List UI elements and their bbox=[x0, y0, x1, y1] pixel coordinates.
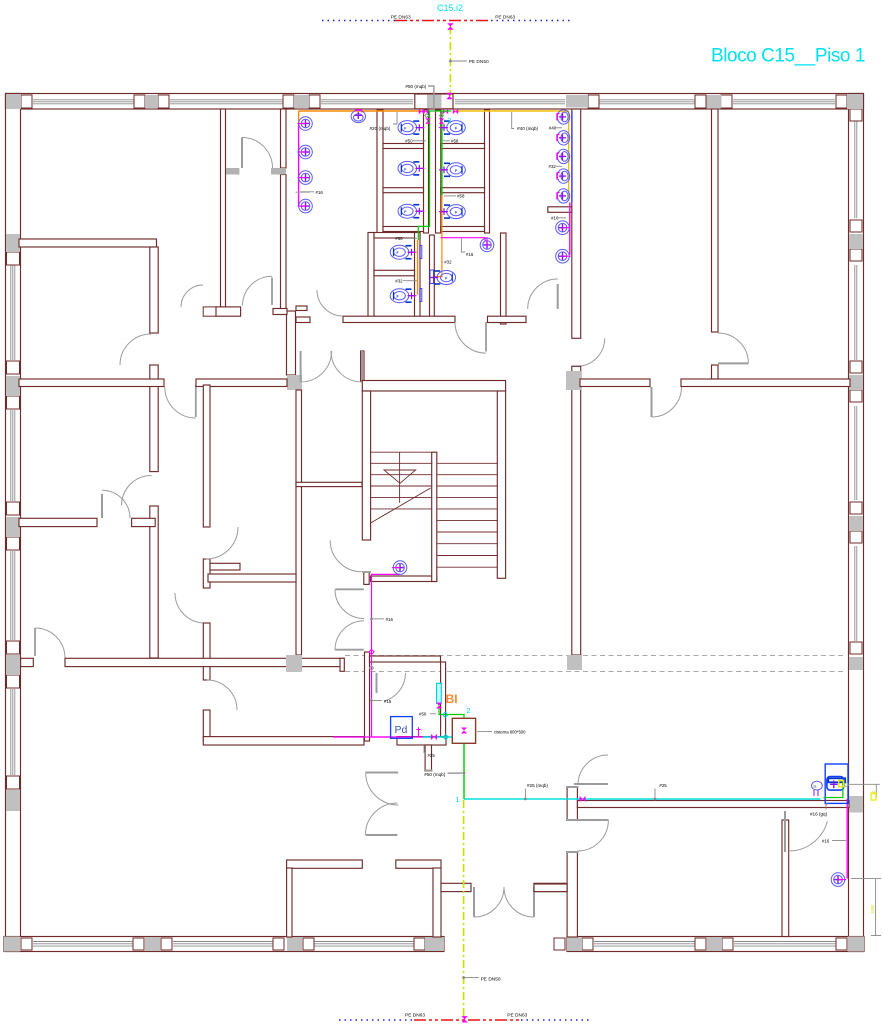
label PE DN63 bottom left bbox=[405, 1013, 425, 1019]
yellow pipe top horizontal bbox=[453, 110, 569, 112]
door arc pier bbox=[577, 820, 608, 851]
window glazing bottom wall x173 bbox=[173, 942, 273, 947]
pillar top wall x294 bbox=[294, 95, 309, 108]
pillar right wall y375 bbox=[849, 375, 863, 390]
valve main pd bbox=[431, 734, 437, 740]
svg-text:#40: #40 bbox=[549, 126, 557, 131]
door leaf + arc between A and B bbox=[242, 138, 273, 169]
wash basin right column 2 bbox=[556, 249, 571, 263]
gray node equipment bbox=[845, 783, 849, 787]
small blue fitting mid room bbox=[430, 270, 434, 284]
wall y801 horizontal bbox=[577, 801, 849, 808]
wc cell L2 bbox=[398, 161, 424, 175]
vestibule door arc 1 bbox=[366, 773, 399, 806]
svg-text:#50: #50 bbox=[419, 712, 427, 717]
window glazing bottom wall x33 bbox=[33, 942, 133, 947]
door arc x203 y680 bbox=[207, 680, 237, 710]
staircase left wall bbox=[362, 391, 370, 540]
svg-text:PE DN63: PE DN63 bbox=[391, 15, 411, 21]
ta arrows bbox=[814, 790, 818, 796]
label #50 row1 bbox=[405, 138, 426, 143]
pillar bottom-left corner bbox=[4, 937, 20, 952]
corridor wall y379 seg a bbox=[19, 379, 164, 387]
magenta pipe bottom right bbox=[846, 799, 848, 879]
svg-text:#50: #50 bbox=[405, 138, 413, 143]
toilet separator y143 left bbox=[383, 144, 424, 149]
green pipe top junction bbox=[428, 110, 451, 112]
yellow fitting equipment bbox=[839, 780, 844, 786]
label cyan 1 bbox=[456, 797, 460, 804]
wall x360 above stairs bbox=[361, 351, 364, 381]
wall y884 horizontal seg bbox=[534, 884, 567, 892]
wc cell R1 bbox=[439, 121, 465, 135]
toilet block bottom band east bbox=[488, 316, 527, 322]
door arc toilet SW bbox=[181, 285, 203, 307]
orange pipe top horizontal bbox=[299, 110, 424, 112]
svg-text:90: 90 bbox=[871, 790, 876, 795]
label #16 right col bbox=[551, 216, 566, 221]
wall y736 horizontal left bbox=[203, 737, 364, 745]
window glazing bottom wall x594 bbox=[594, 942, 695, 947]
interior wall C x571.8 lower bbox=[572, 366, 581, 655]
corridor dashed line lower bbox=[345, 671, 845, 673]
room2 top wall left bbox=[441, 883, 471, 891]
window jambs bottom wall bbox=[21, 938, 847, 950]
yellow-green supply line top bbox=[449, 26, 451, 96]
label #50 mqb top bbox=[405, 84, 434, 112]
door leaf+arc toilet exit2 bbox=[243, 276, 273, 306]
label #32 mid room bbox=[442, 260, 453, 265]
vestibule door leaf 2 bbox=[366, 834, 398, 836]
node pe dn50 bbox=[449, 60, 467, 63]
window glazing right wall y265 bbox=[855, 265, 857, 360]
corridor dashed line upper bbox=[345, 655, 845, 657]
room1 left wall bbox=[287, 868, 292, 937]
wall x782 vertical bbox=[782, 820, 789, 937]
diamond node green 50 bbox=[443, 712, 448, 717]
ta circle bbox=[812, 781, 823, 790]
door jamb toilet SW bbox=[203, 307, 216, 316]
magenta pipe mid-room bbox=[441, 238, 485, 241]
label cyan 2 toilets bbox=[448, 118, 452, 125]
green pipe equipment L bbox=[823, 780, 843, 797]
label PE DN50 top bbox=[469, 59, 489, 65]
room2 double door arcs bbox=[474, 887, 534, 917]
outer bottom wall band left part bbox=[4, 937, 444, 952]
label Pd bbox=[395, 724, 408, 736]
dim line equipment bbox=[849, 784, 880, 798]
door arc corridor left bbox=[35, 628, 65, 658]
svg-text:Pd: Pd bbox=[395, 724, 408, 736]
interior wall x150 upper bbox=[150, 247, 158, 333]
door arc y784 bbox=[578, 755, 608, 785]
interior wall x203 low bbox=[203, 710, 210, 741]
node 50 mqb bbox=[448, 772, 466, 775]
pillar left wall y517 bbox=[6, 517, 20, 537]
room1 right wall bbox=[433, 868, 441, 937]
staircase top wall bbox=[362, 381, 505, 392]
toilet wall x377 vertical bbox=[377, 110, 383, 233]
interior wall x203 upper bbox=[203, 385, 210, 527]
wash basin bottom right bbox=[831, 873, 846, 887]
window jambs top wall bbox=[21, 95, 847, 108]
window glazing left wall y689 bbox=[11, 689, 15, 775]
svg-text:F: F bbox=[404, 127, 406, 131]
label BI bbox=[446, 692, 458, 706]
toilet separator y187 right bbox=[441, 188, 485, 193]
pillar bottom wall x425 bbox=[425, 937, 444, 951]
small blue fitting lower cells 1 bbox=[420, 246, 422, 259]
svg-text:F: F bbox=[404, 167, 406, 171]
window glazing right wall y406 bbox=[855, 406, 857, 500]
urinal right column 4 bbox=[557, 169, 570, 183]
label #58 row1 bbox=[443, 138, 459, 143]
red main top bbox=[395, 20, 491, 22]
interior wall B upper x281 bbox=[281, 109, 287, 168]
urinal right column 5 bbox=[557, 189, 570, 203]
cyan pipe corridor bbox=[464, 798, 820, 800]
stair center line bbox=[399, 452, 401, 503]
door leaf+arc corridor x158 bbox=[165, 385, 196, 418]
label #32 lower cells bbox=[395, 279, 417, 284]
door leaf x788 entry bbox=[784, 811, 786, 852]
pillar right wall y657 bbox=[849, 657, 863, 670]
wash basin left wall 2 bbox=[298, 145, 313, 159]
toilet lower separator y270 bbox=[374, 270, 415, 276]
interior wall x203 mid bbox=[203, 623, 210, 680]
pillar right wall y234 bbox=[849, 234, 863, 249]
wash basin staircase bbox=[392, 561, 407, 575]
pillar left wall y790 bbox=[6, 790, 20, 811]
interior wall C x571.8 upper bbox=[572, 109, 581, 338]
double door arcs x300-362 bbox=[301, 351, 362, 382]
pillar top wall x706 bbox=[707, 95, 722, 108]
wash basin left wall 3 bbox=[298, 171, 313, 185]
window jambs left wall bbox=[7, 252, 20, 789]
svg-text:F: F bbox=[404, 210, 406, 214]
label C15.i2 bbox=[437, 3, 463, 13]
toilet wall x435.5 shaft right bbox=[436, 110, 441, 233]
toilet bottom wall x216 bbox=[216, 307, 241, 316]
orange pipe lower cells bbox=[417, 240, 419, 295]
svg-text:#40 (mqb): #40 (mqb) bbox=[517, 126, 538, 131]
gray pillar corridor x287 bbox=[287, 375, 302, 390]
svg-text:1: 1 bbox=[456, 797, 460, 804]
magenta stub pd bbox=[416, 727, 420, 737]
urinal right column 2 bbox=[557, 131, 570, 145]
wall y736 horizontal right bbox=[397, 737, 446, 745]
gray pillar wall C y655 bbox=[567, 655, 582, 670]
label cisterna bbox=[477, 730, 526, 735]
wc mid room bbox=[429, 271, 455, 285]
pd room wall x440 bbox=[441, 662, 446, 745]
svg-text:F: F bbox=[455, 211, 457, 215]
label #16 riser bbox=[370, 617, 393, 622]
vestibule door arc 2 bbox=[365, 803, 397, 835]
pillar bottom wall x287 bbox=[287, 937, 302, 951]
interior wall x150 mid bbox=[150, 365, 158, 472]
wash basin left wall 1 bbox=[298, 117, 313, 131]
svg-text:BI: BI bbox=[446, 692, 458, 706]
corridor wall y379 seg c bbox=[580, 379, 650, 387]
label #16 mid room bbox=[461, 239, 473, 257]
toilet separator y226 right bbox=[441, 227, 485, 232]
magenta pipe left basins bbox=[298, 124, 300, 206]
wash basin left wall 4 bbox=[298, 199, 313, 213]
svg-text:F: F bbox=[445, 277, 447, 281]
label #50 BI bbox=[419, 712, 436, 717]
svg-text:#50 (mqb): #50 (mqb) bbox=[424, 772, 445, 777]
pillar top wall x145 bbox=[145, 95, 158, 108]
red main bottom bbox=[414, 1019, 521, 1021]
urinal right column 3 bbox=[557, 149, 570, 163]
label PE DN63 bottom right bbox=[507, 1013, 527, 1019]
stair treads right flight bbox=[437, 463, 497, 567]
label #40 mqb bbox=[512, 112, 539, 131]
wash basin right column 1 bbox=[556, 221, 571, 235]
window glazing left wall y262 bbox=[11, 262, 15, 360]
magenta pipe main riser bbox=[372, 574, 435, 737]
label PE DN63 top right bbox=[495, 15, 515, 21]
svg-text:#58: #58 bbox=[457, 194, 465, 199]
cisterna box bbox=[452, 718, 475, 743]
window glazing bottom wall x734 bbox=[734, 942, 836, 947]
label #40 right col bbox=[549, 126, 562, 131]
svg-text:#32: #32 bbox=[395, 279, 403, 284]
pillar bottom wall x707 bbox=[707, 937, 722, 951]
wall D stub above corridor bbox=[712, 365, 719, 379]
diamond node corridor crossing bbox=[369, 649, 374, 654]
svg-text:F: F bbox=[455, 127, 457, 131]
valve top supply bbox=[447, 23, 453, 29]
door leaf+arc corridor x650 bbox=[652, 387, 682, 417]
svg-text:2: 2 bbox=[448, 118, 452, 125]
wall end piece x364 y572 bbox=[364, 572, 369, 584]
label #50 mqb bottom bbox=[424, 772, 462, 777]
svg-text:#50: #50 bbox=[395, 236, 403, 241]
valve BI bbox=[436, 703, 442, 709]
interior wall x150 lower bbox=[150, 506, 158, 658]
staircase divider wall bbox=[432, 452, 437, 581]
interior wall y518 stub bbox=[132, 518, 156, 526]
pd box magenta line bbox=[333, 736, 390, 738]
svg-text:Bloco C15__Piso 1: Bloco C15__Piso 1 bbox=[711, 46, 865, 67]
toilet bottom small walls left bbox=[273, 306, 310, 323]
wc cell R3 bbox=[439, 205, 465, 219]
wc cell L1 bbox=[398, 121, 424, 135]
svg-text:1450: 1450 bbox=[870, 904, 875, 914]
pillar left wall y234 bbox=[6, 234, 20, 252]
door leaf y820 pier bbox=[577, 819, 608, 821]
room2 double door leaves bbox=[474, 887, 534, 917]
interior wall x203 upper2 bbox=[203, 559, 210, 588]
svg-text:#15: #15 bbox=[384, 699, 392, 704]
green pipe cisterna drop bbox=[463, 743, 465, 799]
label #58 row2 bbox=[444, 194, 465, 199]
label #16 left wall bbox=[300, 190, 323, 195]
interior wall B lower x281 bbox=[281, 175, 287, 312]
toilet mid-room wall x429.5 bbox=[430, 235, 435, 319]
label PE DN50 bottom bbox=[462, 976, 501, 982]
window glazing right wall y121 bbox=[855, 121, 857, 218]
toilet block bottom band west bbox=[343, 316, 455, 322]
svg-text:ta: ta bbox=[814, 784, 817, 788]
green pipe shaft right bbox=[441, 111, 443, 195]
door arc staircase bottom bbox=[330, 540, 371, 572]
window glazing top wall x595 bbox=[595, 100, 695, 104]
wc cell LL1 bbox=[390, 245, 416, 259]
pillar right wall y803 bbox=[849, 796, 863, 813]
pillar bottom-right corner bbox=[848, 937, 864, 952]
toilet separator y143 right bbox=[441, 144, 485, 149]
svg-text:PE DN63: PE DN63 bbox=[405, 1013, 425, 1019]
door leaf+arc right toilet room bbox=[528, 279, 558, 309]
svg-text:#20 (mqb): #20 (mqb) bbox=[370, 126, 391, 131]
double door jambs x300 bbox=[301, 351, 362, 382]
stair diagonal break line bbox=[371, 488, 431, 523]
blue dotted main top right bbox=[491, 20, 570, 22]
blue dotted main bottom right bbox=[521, 1019, 592, 1021]
door arc x788 entry bbox=[789, 821, 828, 851]
diamond node corridor crossing 2 bbox=[369, 666, 373, 670]
staircase bottom wall bbox=[371, 576, 437, 582]
vestibule door leaf 1 bbox=[366, 772, 399, 774]
gray pillar corridor x567 bbox=[567, 655, 582, 670]
corridor bottom wall main bbox=[65, 658, 344, 666]
diamond nodes toilet risers bbox=[425, 114, 444, 118]
door arc toilet left room exit bbox=[317, 290, 343, 316]
svg-text:PE DN63: PE DN63 bbox=[495, 15, 515, 21]
svg-text:#25: #25 bbox=[659, 783, 667, 788]
pd room wall x366 bbox=[365, 652, 370, 741]
wall y574 horizontal bbox=[208, 574, 296, 582]
svg-text:#32: #32 bbox=[444, 260, 452, 265]
svg-text:PE DN50: PE DN50 bbox=[469, 59, 489, 65]
door leaf+arc y518 bbox=[102, 490, 130, 518]
wall C stub x549 bbox=[548, 207, 572, 213]
interior wall x292 vertical bbox=[296, 390, 302, 655]
wall y482 horizontal bbox=[296, 482, 362, 486]
toilet separator y187 left bbox=[383, 188, 424, 193]
pillar top-right corner bbox=[847, 94, 863, 109]
svg-text:#58: #58 bbox=[451, 138, 459, 143]
room1 top wall right bbox=[396, 860, 441, 868]
wc cell LL2 bbox=[390, 289, 416, 303]
door arc wall C bbox=[577, 338, 605, 366]
diamond node pd bbox=[443, 734, 448, 739]
yellow fitting right wall bbox=[871, 793, 876, 800]
pillar left wall y376 bbox=[6, 376, 20, 396]
label #20 mqb bbox=[370, 112, 398, 131]
svg-text:PE DN63: PE DN63 bbox=[507, 1013, 527, 1019]
label #25 pd bbox=[424, 745, 435, 758]
wall stub y563 bbox=[210, 563, 240, 570]
door arc x203 y528 bbox=[206, 527, 238, 559]
toilet lower-left wall x368 bbox=[368, 233, 374, 317]
interior wall A x220 vertical bbox=[221, 109, 226, 307]
pd box bbox=[391, 717, 413, 739]
svg-text:#25: #25 bbox=[428, 753, 436, 758]
pd room top wall bbox=[370, 656, 441, 662]
stair treads left flight bbox=[371, 452, 433, 509]
window glazing left wall y410 bbox=[11, 410, 15, 501]
toilet wall x484.5 vertical bbox=[485, 110, 490, 233]
svg-text:PE DN50: PE DN50 bbox=[481, 977, 501, 983]
outer bottom wall band right part bbox=[567, 937, 864, 952]
valve cisterna bbox=[461, 728, 467, 734]
orange pipe left drop bbox=[298, 111, 300, 124]
window glazing top wall x33 bbox=[33, 100, 134, 104]
interior wall B foot x287 bbox=[287, 311, 296, 375]
window glazing bottom wall x314 bbox=[314, 942, 414, 947]
svg-text:#50 (mqb): #50 (mqb) bbox=[405, 84, 426, 89]
label #32 right col bbox=[549, 164, 563, 169]
svg-text:#25 (mqb): #25 (mqb) bbox=[527, 783, 548, 788]
svg-text:F: F bbox=[455, 169, 457, 173]
door leaf y784 bbox=[574, 783, 608, 785]
double door arc 2 stairs-south bbox=[335, 621, 364, 650]
svg-text:F: F bbox=[397, 295, 399, 299]
outer top wall band bbox=[6, 94, 864, 110]
label cyan 2 cisterna bbox=[467, 708, 471, 715]
corridor bottom wall stub left bbox=[21, 658, 34, 666]
pillar bottom wall x567 bbox=[567, 937, 582, 951]
title Bloco C15__Piso 1 bbox=[711, 46, 865, 67]
interior wall y239 horizontal bbox=[19, 239, 157, 247]
interior wall D x711.5 vertical bbox=[712, 109, 719, 332]
interior wall y518 horizontal bbox=[19, 518, 97, 526]
BI cyan fixture bbox=[437, 683, 442, 703]
wall stub x425 below bbox=[424, 745, 433, 771]
magenta pipe right basins bbox=[569, 203, 571, 256]
blue equipment inner box bbox=[827, 777, 844, 791]
wash basin mid room bbox=[480, 237, 494, 252]
svg-text:F: F bbox=[397, 251, 399, 255]
svg-text:#16: #16 bbox=[386, 617, 394, 622]
double door arc 1 stairs-south bbox=[335, 590, 364, 619]
wall C jamb bbox=[572, 366, 581, 376]
label #50 lower cells bbox=[395, 236, 417, 241]
window glazing top wall x455 bbox=[455, 100, 565, 104]
svg-text:#16: #16 bbox=[466, 252, 474, 257]
blue dotted main top left bbox=[322, 20, 395, 22]
corridor wall y379 seg b bbox=[196, 379, 287, 387]
stair direction triangle bbox=[384, 470, 416, 483]
urinal top wall bbox=[351, 110, 365, 123]
yellow-green supply line bottom bbox=[463, 800, 465, 1019]
yellow pipe right drop bbox=[568, 111, 570, 201]
door leaf+arc wall D bbox=[718, 333, 748, 363]
gray pillar wall C y371 bbox=[566, 371, 582, 390]
svg-text:#32: #32 bbox=[549, 164, 557, 169]
green pipe shaft left bbox=[418, 111, 429, 240]
door leaf+arc mid toilet room exit bbox=[455, 322, 486, 353]
blue equipment box bottom right bbox=[825, 764, 848, 803]
pillar top-left corner bbox=[6, 94, 21, 109]
pillar top wall x425 gray bbox=[427, 95, 442, 109]
pillar bottom wall x145 bbox=[145, 937, 160, 951]
svg-text:#16: #16 bbox=[822, 839, 830, 844]
pillar right wall y516 bbox=[849, 516, 863, 531]
svg-text:#16: #16 bbox=[316, 190, 324, 195]
double door leaf 1 stairs-south bbox=[335, 588, 364, 590]
urinal right column 1 bbox=[557, 110, 570, 124]
pd room door leaf bbox=[377, 673, 406, 701]
gray shelf line toilets bbox=[296, 191, 310, 193]
toilet lower cells top y232 bbox=[374, 233, 420, 239]
outer left wall band bbox=[6, 94, 21, 952]
label #16 bottom right bbox=[822, 839, 846, 844]
